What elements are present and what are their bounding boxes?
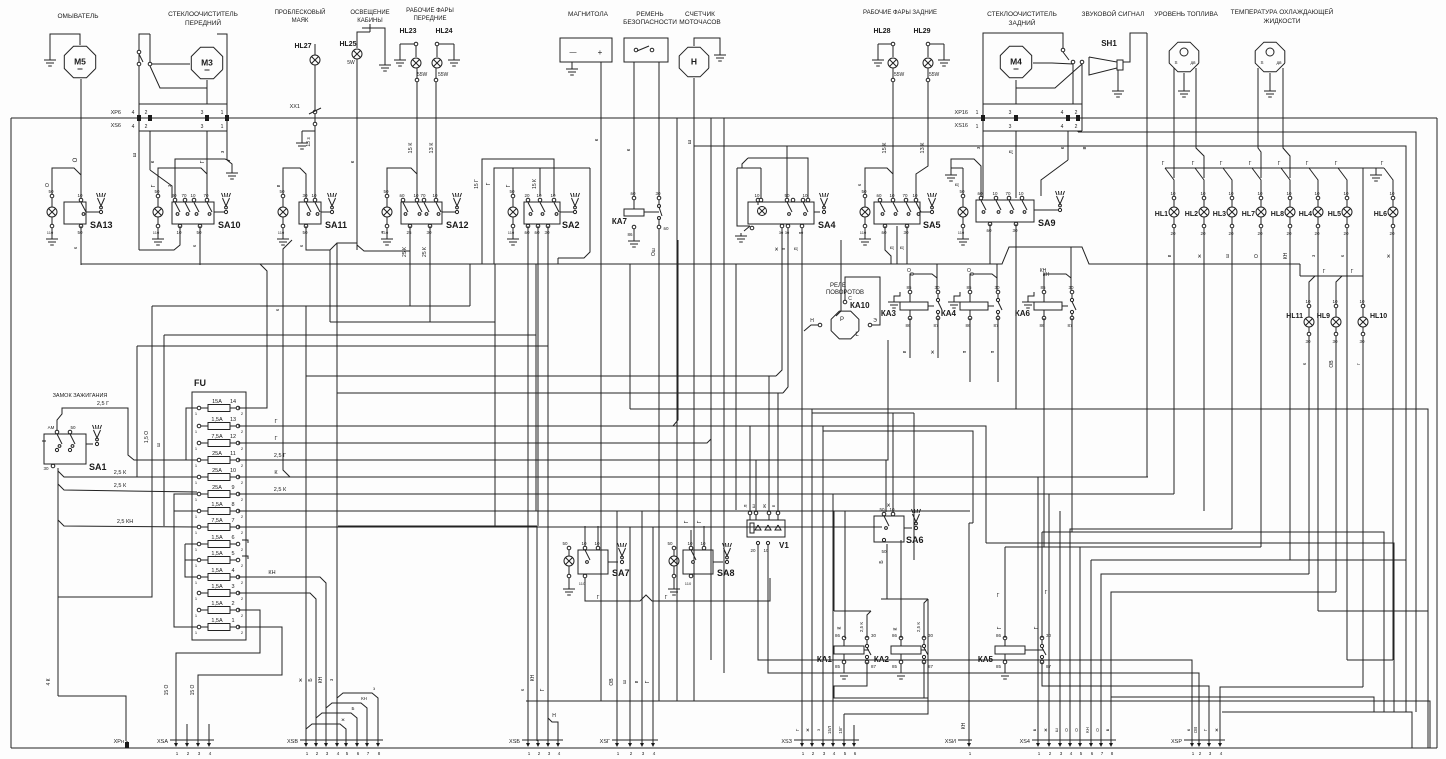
svg-text:10: 10 xyxy=(581,541,587,546)
wire fuse10 line xyxy=(238,476,1148,478)
svg-text:в: в xyxy=(1167,254,1173,257)
svg-text:Г: Г xyxy=(151,184,157,187)
svg-text:20: 20 xyxy=(1314,231,1320,236)
svg-text:УРОВЕНЬ ТОПЛИВА: УРОВЕНЬ ТОПЛИВА xyxy=(1154,11,1218,18)
wire v137 xyxy=(136,346,138,477)
unit V1 xyxy=(747,520,785,537)
svg-text:ЗАМОК ЗАЖИГАНИЯ: ЗАМОК ЗАЖИГАНИЯ xyxy=(53,393,108,399)
svg-text:V1: V1 xyxy=(779,541,789,550)
wires SA12 down xyxy=(409,226,411,306)
wire hour meter top xyxy=(694,38,720,52)
svg-text:КА7: КА7 xyxy=(612,217,628,226)
wire stair left6 xyxy=(1091,559,1406,561)
svg-text:110: 110 xyxy=(685,581,692,586)
svg-text:30: 30 xyxy=(1305,339,1311,344)
svg-text:55W: 55W xyxy=(438,72,449,78)
svg-text:10: 10 xyxy=(311,193,317,198)
ground HL24 xyxy=(453,44,455,57)
wire HL4 col xyxy=(1317,246,1319,611)
wire fuse9 line xyxy=(238,493,1174,495)
wire SA4 bracket 158 xyxy=(748,158,808,198)
svg-text:50: 50 xyxy=(77,230,83,235)
svg-text:ш: ш xyxy=(751,504,756,508)
svg-text:ХSР: ХSР xyxy=(1171,739,1182,745)
svg-text:ОСВЕЩЕНИЕ: ОСВЕЩЕНИЕ xyxy=(350,10,389,16)
switch SA8 xyxy=(683,550,713,574)
svg-text:70: 70 xyxy=(420,193,426,198)
svg-text:ЗВУКОВОЙ СИГНАЛ: ЗВУКОВОЙ СИГНАЛ xyxy=(1082,9,1145,18)
wire stair b xyxy=(1042,532,1384,712)
svg-text:п: п xyxy=(781,247,787,250)
svg-text:70: 70 xyxy=(1005,191,1011,196)
wire trunk y335 xyxy=(164,334,536,336)
wire XSA stub4 xyxy=(208,724,210,741)
svg-text:30: 30 xyxy=(171,193,177,198)
svg-text:КАБИНЫ: КАБИНЫ xyxy=(357,18,382,24)
radio box xyxy=(560,38,612,62)
wire trunk y393 xyxy=(337,392,783,394)
svg-text:10: 10 xyxy=(889,507,895,512)
svg-text:КН: КН xyxy=(318,676,324,683)
hour meter H xyxy=(679,47,709,77)
wire v283 xyxy=(283,240,292,477)
svg-text:О: О xyxy=(45,183,51,187)
svg-text:70: 70 xyxy=(203,193,209,198)
svg-text:2,5 Г: 2,5 Г xyxy=(274,453,286,459)
svg-text:КН: КН xyxy=(1283,252,1289,259)
svg-text:S: S xyxy=(1260,60,1263,65)
svg-text:ХSИ: ХSИ xyxy=(945,739,956,745)
svg-text:85: 85 xyxy=(996,664,1002,669)
wire HL8 col xyxy=(1289,246,1291,560)
svg-text:15 О: 15 О xyxy=(164,684,170,695)
wire fork XSB8 xyxy=(337,693,378,741)
svg-text:9: 9 xyxy=(231,485,234,491)
svg-text:HL8: HL8 xyxy=(1271,211,1284,218)
wire fuel sensor left xyxy=(1173,68,1175,178)
svg-text:SA2: SA2 xyxy=(562,220,580,230)
svg-text:10: 10 xyxy=(230,468,236,474)
svg-text:10: 10 xyxy=(176,230,182,235)
svg-text:10: 10 xyxy=(413,193,419,198)
svg-text:Г: Г xyxy=(1381,161,1384,167)
svg-text:ПЕРЕДНИЙ: ПЕРЕДНИЙ xyxy=(185,18,221,27)
motor M4 xyxy=(1000,46,1031,77)
motor M3 xyxy=(191,47,222,78)
lamp SA7 xyxy=(567,546,571,550)
svg-text:М4: М4 xyxy=(1010,57,1022,67)
svg-text:20: 20 xyxy=(1170,231,1176,236)
svg-text:О: О xyxy=(1074,728,1079,732)
wire SA2 frame right xyxy=(558,168,590,258)
wire v677 xyxy=(676,118,678,701)
wire stair kn xyxy=(969,522,973,524)
lamp HL29 xyxy=(926,42,930,46)
wire SA13 lamp feed xyxy=(52,168,81,194)
svg-text:85: 85 xyxy=(892,664,898,669)
svg-text:20: 20 xyxy=(1286,231,1292,236)
wires V1 up xyxy=(749,426,751,511)
wire stair left3 xyxy=(1059,511,1061,741)
svg-text:ОВ: ОВ xyxy=(1193,727,1198,734)
svg-text:SA12: SA12 xyxy=(446,220,469,230)
svg-text:10: 10 xyxy=(1257,191,1263,196)
svg-text:АМ: АМ xyxy=(48,425,55,430)
wire y697 line xyxy=(1111,697,1374,712)
lamp SA4 xyxy=(756,198,760,202)
svg-text:10: 10 xyxy=(1314,191,1320,196)
svg-text:РАБОЧИЕ ФАРЫ ЗАДНИЕ: РАБОЧИЕ ФАРЫ ЗАДНИЕ xyxy=(863,10,937,16)
svg-text:Н: Н xyxy=(552,713,556,719)
svg-text:30: 30 xyxy=(43,466,49,471)
svg-text:50: 50 xyxy=(562,541,568,546)
svg-text:SA8: SA8 xyxy=(717,568,735,578)
svg-text:70: 70 xyxy=(902,193,908,198)
ground HL23 xyxy=(399,44,401,57)
switch SA9 xyxy=(976,200,1034,222)
wires KA3 feeds xyxy=(910,274,937,290)
wire HL2 top xyxy=(1195,168,1204,196)
lamp SA10 xyxy=(156,194,160,198)
wire HL5 col xyxy=(1346,246,1348,660)
wires SA9 down xyxy=(989,224,991,264)
svg-text:ТЕМПЕРАТУРА ОХЛАЖДАЮЩЕЙ: ТЕМПЕРАТУРА ОХЛАЖДАЮЩЕЙ xyxy=(1231,7,1334,16)
svg-text:10: 10 xyxy=(1305,299,1311,304)
wire xsz jog xyxy=(844,599,928,714)
svg-text:ПЕРЕДНИЕ: ПЕРЕДНИЕ xyxy=(413,16,446,22)
svg-text:10: 10 xyxy=(550,193,556,198)
switch SA10 xyxy=(172,202,214,224)
svg-text:110: 110 xyxy=(860,230,867,235)
svg-text:КН: КН xyxy=(361,696,367,701)
wires SA4 down xyxy=(776,228,782,376)
svg-text:СЧЕТЧИК: СЧЕТЧИК xyxy=(685,11,715,18)
svg-text:1: 1 xyxy=(231,618,234,624)
svg-text:13 К: 13 К xyxy=(920,142,926,154)
wire HL8 top xyxy=(1281,168,1290,196)
svg-text:2: 2 xyxy=(145,110,148,116)
svg-text:HL28: HL28 xyxy=(873,28,890,35)
wire v164 xyxy=(163,335,165,526)
svg-text:85: 85 xyxy=(906,285,912,290)
svg-text:5: 5 xyxy=(231,551,234,557)
svg-text:2,5 К: 2,5 К xyxy=(114,483,127,489)
wire XP16-2 down xyxy=(1077,131,1079,132)
svg-text:дв: дв xyxy=(1276,60,1282,65)
svg-text:10: 10 xyxy=(754,193,760,198)
svg-text:г: г xyxy=(1356,363,1362,365)
motor M5 xyxy=(64,46,95,77)
ground КА1 xyxy=(843,664,845,670)
svg-text:HL1: HL1 xyxy=(1155,211,1168,218)
svg-text:SA13: SA13 xyxy=(90,220,113,230)
svg-text:3: 3 xyxy=(201,124,204,130)
svg-text:10: 10 xyxy=(1343,191,1349,196)
svg-text:2: 2 xyxy=(1075,124,1078,130)
wire SA9 riser 1016 xyxy=(1015,197,1017,199)
svg-text:20: 20 xyxy=(1228,231,1234,236)
wire KA10 right xyxy=(845,277,880,325)
wire HL7 col xyxy=(1260,246,1262,547)
svg-text:25 К: 25 К xyxy=(402,247,408,257)
wire v678 xyxy=(673,240,678,426)
svg-text:20: 20 xyxy=(750,548,756,553)
wires SA7 up xyxy=(584,526,586,546)
svg-text:Г: Г xyxy=(540,688,546,691)
svg-text:HL6: HL6 xyxy=(1374,211,1387,218)
svg-text:20: 20 xyxy=(1343,231,1349,236)
svg-text:КА1: КА1 xyxy=(817,655,833,664)
svg-text:Г: Г xyxy=(1335,161,1338,167)
ground SA7 xyxy=(568,578,570,586)
wire branch fuse14 xyxy=(238,264,267,408)
svg-text:15 К: 15 К xyxy=(532,179,538,189)
wire SA6 down xyxy=(886,544,888,599)
svg-text:МАЯК: МАЯК xyxy=(292,18,309,24)
svg-text:10: 10 xyxy=(190,193,196,198)
svg-text:1,5 О: 1,5 О xyxy=(144,431,150,443)
wire fuse12 line xyxy=(238,439,711,443)
switch SA4 xyxy=(748,202,814,224)
svg-text:в: в xyxy=(1082,146,1088,149)
svg-text:ж: ж xyxy=(341,717,344,722)
svg-text:5W: 5W xyxy=(347,60,355,66)
wires SA6 up xyxy=(885,460,887,512)
svg-text:к: к xyxy=(1186,729,1191,731)
svg-text:30: 30 xyxy=(302,193,308,198)
wire HL1 col xyxy=(1173,246,1175,494)
wire fork XSB6 xyxy=(316,713,357,741)
svg-text:Л: Л xyxy=(955,183,961,186)
svg-text:ш: ш xyxy=(622,680,628,684)
wire hour meter down xyxy=(693,78,695,701)
svg-text:4: 4 xyxy=(132,110,135,116)
wire HL10 col down xyxy=(1362,352,1364,687)
wire XS3 f2 xyxy=(811,409,813,741)
svg-text:13: 13 xyxy=(230,417,236,423)
svg-text:ж: ж xyxy=(1214,728,1219,731)
svg-text:8: 8 xyxy=(231,502,234,508)
svg-text:ч: ч xyxy=(380,230,386,233)
fuse6 pin hook xyxy=(242,540,248,543)
wire SA1 down xyxy=(57,468,59,696)
svg-text:55W: 55W xyxy=(417,72,428,78)
wire HL3 down xyxy=(1231,228,1233,246)
svg-text:30: 30 xyxy=(1332,339,1338,344)
wire HL1 down xyxy=(1173,228,1175,246)
svg-text:110: 110 xyxy=(278,230,285,235)
wires HL28 HL29 down xyxy=(892,68,894,198)
wire to SA10 30 pin xyxy=(227,160,232,170)
svg-text:Г: Г xyxy=(1306,161,1309,167)
svg-text:SH1: SH1 xyxy=(1101,39,1117,48)
svg-text:25: 25 xyxy=(406,230,412,235)
wire HL7 down xyxy=(1260,228,1262,246)
connector XP6/XS6 xyxy=(139,103,227,105)
svg-text:в0: в0 xyxy=(799,230,804,235)
svg-text:30: 30 xyxy=(544,230,550,235)
ground KA7 xyxy=(633,229,635,238)
wire HL11 down xyxy=(1308,336,1310,352)
svg-text:55W: 55W xyxy=(894,72,905,78)
svg-text:10: 10 xyxy=(1359,299,1365,304)
svg-text:КН: КН xyxy=(530,674,536,681)
svg-text:ж: ж xyxy=(805,728,810,731)
svg-text:FU: FU xyxy=(194,378,206,388)
wire XS3 stub6 xyxy=(853,725,855,741)
svg-text:3: 3 xyxy=(1009,110,1012,116)
svg-text:Э: Э xyxy=(873,318,877,324)
wire kn xsi xyxy=(968,523,970,740)
svg-text:15 Г: 15 Г xyxy=(474,179,480,189)
svg-text:SA10: SA10 xyxy=(218,220,241,230)
svg-text:4: 4 xyxy=(132,124,135,130)
svg-text:50: 50 xyxy=(70,425,76,430)
wire HL4 top xyxy=(1309,168,1318,196)
svg-text:РЕЛЕ: РЕЛЕ xyxy=(830,283,846,289)
svg-text:Г: Г xyxy=(597,595,600,601)
wire FU left links xyxy=(186,408,197,460)
connector XP16/XS16 xyxy=(983,103,1082,105)
wire fuel sensor right xyxy=(1196,68,1204,178)
wire M3 down xyxy=(206,80,208,104)
wire XSB4 jog xyxy=(548,714,558,741)
wire HL3 top xyxy=(1223,168,1232,196)
switch SA12 xyxy=(401,202,442,224)
lamp SA8 xyxy=(672,546,676,550)
wire HL5 down xyxy=(1346,228,1348,246)
switch contact M3 xyxy=(137,50,141,54)
wire v430 joint xyxy=(429,226,431,322)
wire KA10 left xyxy=(804,325,818,331)
svg-text:3: 3 xyxy=(201,110,204,116)
svg-text:50: 50 xyxy=(48,189,54,194)
svg-text:2,5 К: 2,5 К xyxy=(274,487,287,493)
lamp SA13 xyxy=(50,194,54,198)
svg-text:1: 1 xyxy=(221,124,224,130)
ground SA9 top xyxy=(951,159,981,198)
wire HL27 down xyxy=(314,44,316,55)
svg-text:85: 85 xyxy=(835,664,841,669)
wire horn down xyxy=(1146,33,1148,477)
wire stair left1 xyxy=(1037,477,1039,741)
wire y146 trunk xyxy=(694,145,787,147)
svg-text:110: 110 xyxy=(508,230,515,235)
ground HL row xyxy=(1375,168,1377,172)
wire v495 xyxy=(494,264,496,526)
svg-text:Н: Н xyxy=(691,57,697,67)
wire SA2 lamp feed xyxy=(512,168,514,194)
svg-text:в: в xyxy=(902,350,908,353)
svg-text:ОВ: ОВ xyxy=(1329,360,1335,368)
svg-text:Г: Г xyxy=(1162,161,1165,167)
svg-text:SA1: SA1 xyxy=(89,462,107,472)
svg-text:ОМЫВАТЕЛЬ: ОМЫВАТЕЛЬ xyxy=(57,13,98,20)
svg-text:ХSБ: ХSБ xyxy=(509,739,520,745)
svg-text:10: 10 xyxy=(1200,191,1206,196)
svg-text:ш: ш xyxy=(156,443,162,447)
svg-text:Г: Г xyxy=(1034,626,1040,629)
wire HL8 down xyxy=(1289,228,1291,246)
svg-text:Г: Г xyxy=(1278,161,1281,167)
wire M4 bottom xyxy=(1015,80,1017,104)
svg-text:Л: Л xyxy=(743,504,748,507)
svg-text:3: 3 xyxy=(231,584,234,590)
wire M4 inner xyxy=(1016,64,1082,88)
wire horn xyxy=(1123,33,1147,62)
svg-text:ж: ж xyxy=(1043,728,1048,731)
wire KA5 87 down xyxy=(1042,662,1209,741)
svg-text:30: 30 xyxy=(1012,228,1018,233)
ground SA8 xyxy=(673,578,675,586)
wire HL11 col down xyxy=(1308,352,1310,574)
svg-text:25 К: 25 К xyxy=(422,247,428,257)
svg-text:Г: Г xyxy=(684,520,690,523)
wire fuse3 line xyxy=(238,593,316,741)
svg-text:ХS6: ХS6 xyxy=(111,123,121,129)
svg-text:30: 30 xyxy=(903,230,909,235)
ground HL29 xyxy=(943,44,945,57)
wire XP16-1 down xyxy=(982,131,984,198)
svg-text:—: — xyxy=(570,49,577,56)
svg-text:10: 10 xyxy=(594,541,600,546)
frame SA7 SA8 top xyxy=(338,525,537,527)
svg-text:10: 10 xyxy=(687,541,693,546)
wires KA2 feeds xyxy=(900,540,902,638)
lamp HL24 xyxy=(435,42,439,46)
svg-text:п: п xyxy=(990,350,996,353)
svg-text:КА4: КА4 xyxy=(941,309,957,318)
svg-text:Г: Г xyxy=(1323,269,1326,275)
fuel sensor xyxy=(1169,42,1199,72)
svg-text:ХSГ: ХSГ xyxy=(600,739,610,745)
wire riser 470 xyxy=(469,264,471,306)
svg-text:ХSВ: ХSВ xyxy=(287,739,298,745)
ground XX1 xyxy=(301,131,303,140)
wire SA1 to fuse7 xyxy=(58,520,197,527)
svg-text:10: 10 xyxy=(992,191,998,196)
svg-text:Г: Г xyxy=(486,182,492,185)
svg-text:4: 4 xyxy=(231,568,234,574)
wire trunk y599 xyxy=(881,598,928,600)
ground M3 circuit xyxy=(231,170,233,173)
svg-text:БЕЗОПАСНОСТИ: БЕЗОПАСНОСТИ xyxy=(623,19,677,26)
svg-text:ХS4: ХS4 xyxy=(1020,739,1030,745)
wires SA2 down xyxy=(527,226,529,741)
wire SA1 to XP xyxy=(58,696,126,741)
wire SA12 lamp feed xyxy=(387,168,417,194)
wire temp sensor right xyxy=(1283,68,1290,178)
wire XP6-4 down xyxy=(138,131,140,250)
svg-text:10: 10 xyxy=(1228,191,1234,196)
wire M3 right xyxy=(217,34,227,104)
svg-text:+: + xyxy=(598,48,603,57)
wire SA4 riser 787 xyxy=(786,146,788,198)
wire HL5 top xyxy=(1338,168,1347,196)
svg-text:86: 86 xyxy=(835,633,841,638)
svg-text:Г: Г xyxy=(1351,269,1354,275)
wire fuse2 line xyxy=(176,610,260,741)
wire SA7 down xyxy=(585,578,591,601)
svg-text:Л: Л xyxy=(794,247,800,250)
svg-text:Г: Г xyxy=(506,184,512,187)
pins SA4 xyxy=(785,198,789,202)
svg-text:HL7: HL7 xyxy=(1242,211,1255,218)
lamp HL28 xyxy=(891,42,895,46)
svg-text:13 з: 13 з xyxy=(306,137,312,147)
svg-text:20: 20 xyxy=(1200,231,1206,236)
wire SA11 lamp feed xyxy=(283,168,306,198)
